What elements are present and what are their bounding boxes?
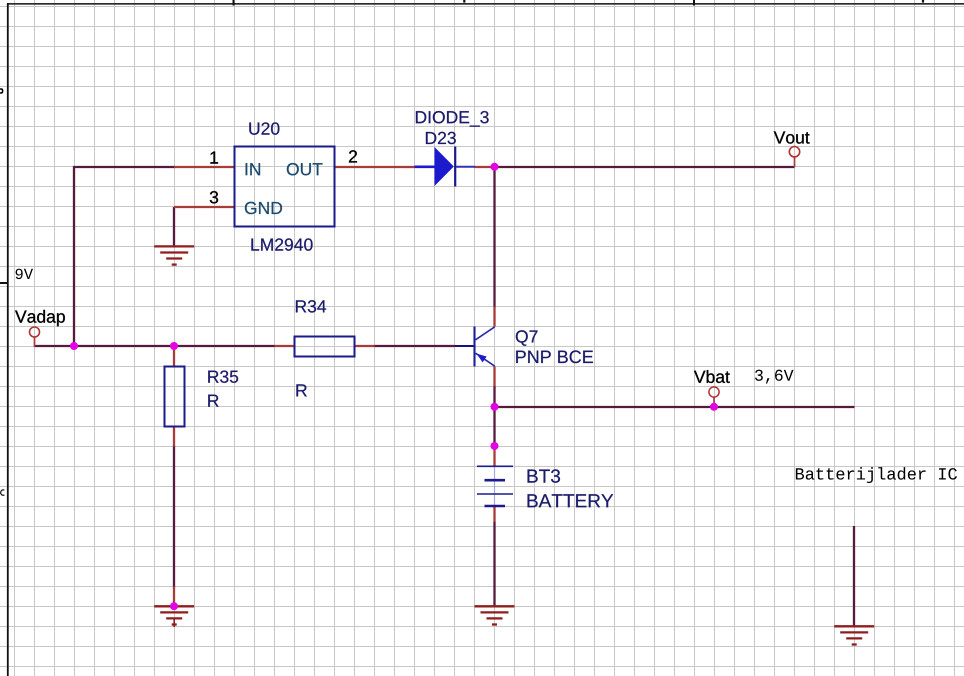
U20 pin number 1 — [210, 152, 218, 164]
pin stub R35 bottom — [173, 427, 175, 447]
battery BT3 plate 1 long — [477, 465, 513, 467]
wire Vbat node down to battery junction — [493, 407, 495, 446]
battery BT3 plate 2 short — [485, 479, 506, 482]
diode label D23 — [426, 132, 456, 144]
port terminal Vout — [789, 147, 799, 157]
wire battery bottom to center ground — [493, 522, 495, 607]
transistor Q7 value label PNP BCE — [516, 350, 593, 363]
wire Vbat net horizontal — [495, 406, 855, 408]
title text Batterijlader IC — [796, 467, 957, 483]
port label Vadap — [15, 310, 65, 326]
pin stub R35 top — [173, 346, 175, 367]
border tick top x=694 — [693, 0, 695, 6]
junction Vadap-9V corner — [70, 342, 78, 350]
transistor Q7 emitter diagonal — [476, 353, 495, 366]
pin stub battery top — [493, 447, 495, 467]
pin stub Vbat port — [713, 397, 715, 408]
resistor R35 box — [165, 367, 185, 427]
junction Vbat port node — [710, 403, 718, 411]
border zone glyph 0 top-left — [0, 88, 3, 93]
resistor R34 value label R — [296, 384, 306, 396]
junction emitter-Vbat node — [491, 403, 499, 411]
diode D23 triangle — [435, 147, 454, 186]
port label Vbat — [694, 370, 730, 383]
diode D23 anode lead — [415, 166, 437, 169]
ground G3 below battery — [475, 606, 515, 624]
pin stub Q7 emitter — [493, 367, 495, 387]
junction R35 top — [170, 342, 178, 350]
sheet border left line — [7, 3, 9, 676]
port terminal Vbat — [709, 387, 719, 397]
border nub top x=923 — [922, 0, 924, 3]
pin stub Q7 collector — [493, 307, 495, 327]
diode D23 cathode bar — [454, 147, 456, 187]
wire R35 bottom leg — [173, 446, 175, 588]
diode label DIODE_3 — [416, 111, 489, 127]
U20 value label LM2940 — [251, 238, 312, 250]
wire 9V net left vertical — [73, 166, 75, 346]
U20 reference label — [249, 122, 279, 134]
pin stub R34 right — [355, 345, 375, 347]
transistor Q7 base lead — [455, 345, 475, 347]
junction left ground node — [170, 602, 178, 610]
wire emitter to Vbat net — [493, 386, 495, 408]
border zone glyph left lower — [0, 489, 5, 496]
junction battery top node — [491, 442, 499, 450]
wire diode junction down to collector — [493, 166, 495, 308]
transistor Q7 reference label — [516, 330, 538, 346]
resistor R34 box — [295, 337, 355, 357]
U20 pin name GND — [245, 202, 282, 214]
resistor R35 reference label — [208, 370, 238, 382]
border nub top x=464 — [463, 0, 465, 3]
ground G4 right bottom — [834, 626, 874, 644]
border tick left y=283 — [0, 282, 9, 284]
junction diode-collector node — [491, 163, 499, 171]
pin stub U20 pin1 — [174, 166, 235, 168]
port terminal Vadap — [30, 327, 40, 337]
pin stub Vadap port — [34, 337, 36, 348]
sheet border top line — [8, 3, 964, 5]
battery BT3 value label BATTERY — [528, 494, 614, 507]
wire Vout net horizontal — [495, 166, 795, 168]
ground G1 under U20 GND pin — [154, 246, 194, 264]
resistor R34 reference label — [296, 300, 326, 312]
diode D23 cathode lead — [456, 166, 475, 168]
border tick top x=233 — [233, 0, 235, 6]
pin stub R34 left — [275, 345, 295, 347]
transistor Q7 base bar — [473, 327, 475, 367]
battery BT3 center ghost line — [494, 467, 496, 506]
transistor Q7 collector diagonal — [476, 327, 495, 340]
pin stub diode cathode to junction — [475, 166, 492, 168]
wire right ground vertical — [853, 526, 855, 626]
wire 9V net top horizontal — [73, 166, 175, 168]
wire R34 to Q7 base — [375, 345, 456, 347]
pin stub R35 leg to left ground — [173, 587, 175, 607]
U20 pin number 2 — [349, 150, 357, 162]
ground G2 center tail — [173, 618, 175, 627]
ground G2 below R35 — [154, 606, 194, 624]
value label 3,6V — [755, 370, 793, 384]
battery BT3 plate 4 short — [485, 505, 506, 508]
battery BT3 plate 3 long — [477, 493, 513, 495]
U20 pin name IN — [246, 163, 260, 175]
wire Vadap net horizontal — [35, 345, 275, 347]
transistor Q7 emitter arrow PNP — [477, 354, 487, 363]
pin stub Vout port — [794, 157, 796, 168]
pin stub battery bottom — [493, 506, 495, 522]
battery BT3 reference label — [528, 469, 560, 482]
wire U20 GND corner to ground — [173, 207, 175, 247]
pin stub U20 pin2 — [335, 166, 415, 168]
port label Vout — [774, 131, 810, 143]
op-amp U20 box LM2940 regulator — [235, 147, 335, 227]
resistor R35 value label R — [208, 395, 218, 407]
pin stub U20 pin3 — [174, 206, 235, 208]
U20 pin name OUT — [287, 163, 323, 175]
net label 9V — [16, 269, 33, 280]
U20 pin number 3 — [210, 191, 218, 203]
